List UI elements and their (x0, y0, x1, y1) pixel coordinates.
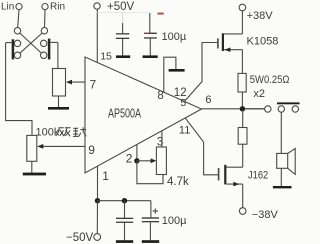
svg-text:+50V: +50V (107, 1, 135, 13)
speaker BL1 (277, 149, 296, 175)
node pin2 junction (134, 158, 139, 163)
svg-text:K1058: K1058 (247, 36, 279, 48)
capacitor C2 100u upper lead (149, 13, 151, 33)
svg-text:1: 1 (102, 169, 109, 183)
pin 8 wire to ground (164, 57, 176, 92)
transistor Q1 K1058 (218, 33, 243, 52)
ground under C3 (116, 240, 133, 243)
wire R1 to output node (241, 92, 243, 109)
wire RP1a to ground (58, 96, 60, 107)
svg-text:−50V: −50V (66, 232, 94, 244)
capacitor C3 plates (116, 218, 133, 223)
svg-text:Rin: Rin (50, 2, 65, 13)
pin 12 wire to Q1 gate (185, 43, 218, 102)
wire output to jack (245, 108, 265, 110)
pin 1 wire down (97, 166, 99, 200)
svg-text:4.7k: 4.7k (167, 176, 189, 188)
capacitor C2 plates (top plate part red) (144, 33, 157, 39)
wire switch to pot RP1a (57, 42, 59, 68)
op-amp U1 AP500A triangle (85, 57, 202, 173)
potentiometer RP1b body (27, 135, 37, 161)
wire C4 to ground (149, 222, 151, 240)
wire +50V to pin 15 (96, 9, 98, 62)
capacitor C4 100u upper lead (150, 201, 152, 218)
svg-text:15: 15 (100, 50, 112, 62)
ground under RP1b (23, 173, 46, 176)
trimmer RP2 wiper arrow (137, 158, 156, 163)
bottom rail wire (98, 200, 151, 202)
connector circle pair (278, 106, 298, 112)
ground under C4 (142, 240, 159, 243)
wire C1 to ground (122, 39, 124, 55)
output node junction (240, 106, 245, 111)
output wire pin 6 (202, 108, 265, 110)
pin 3 wire (161, 131, 163, 147)
ground under C2 (143, 55, 158, 58)
svg-text:AP500A: AP500A (108, 107, 142, 121)
svg-text:J162: J162 (248, 170, 269, 182)
capacitor C3 upper lead (124, 201, 126, 218)
resistor R1 body (238, 73, 246, 92)
switch S1 contact circles (14, 28, 47, 59)
switch S1 right contact bar (48, 39, 51, 60)
wire pin1 to -50V (96, 201, 98, 234)
switch S1 left contact bar (12, 39, 15, 59)
capacitor C1 plates (116, 33, 129, 39)
wire connector to speaker (280, 112, 282, 153)
terminal +38V (239, 4, 273, 22)
terminal +50V (94, 1, 135, 13)
trimmer RP2 body 4.7k (156, 147, 166, 175)
wire Q2 source to R2 (242, 144, 244, 167)
CJK glyphs shuang-lian (dual ganged) (56, 127, 86, 136)
svg-text:x2: x2 (253, 88, 265, 100)
wire C2 to ground (149, 39, 151, 56)
terminal -38V (239, 208, 278, 222)
capacitor C1 upper lead (122, 13, 124, 24)
terminal -50V (66, 232, 101, 244)
node C3 junction (122, 198, 127, 203)
ground at pin 8 (169, 69, 185, 72)
svg-text:11: 11 (179, 125, 190, 137)
wire speaker to ground (280, 168, 282, 186)
svg-text:3: 3 (157, 134, 164, 148)
switch S1 cross wire b (20, 33, 42, 53)
svg-text:7: 7 (90, 77, 97, 91)
wire from left bar (6, 42, 12, 44)
wire Q1 source to R1 (241, 50, 243, 74)
wire from right bar (50, 41, 58, 43)
transistor Q2 J162 (219, 165, 243, 187)
input terminal Lin (1, 2, 22, 13)
red polarity tick (158, 13, 164, 15)
wire Rin to switch (44, 10, 47, 28)
node pin1 junction (95, 198, 100, 203)
pin 2 stub wire (136, 145, 138, 161)
svg-text:8: 8 (157, 90, 163, 102)
faint +50V rail to caps (97, 12, 150, 14)
potentiometer RP1a wiper arrow to pin 7 (66, 80, 85, 85)
wire Lin to switch (18, 10, 19, 28)
svg-text:100µ: 100µ (162, 31, 187, 43)
output jack circle (265, 106, 271, 112)
wire RP2 bottom link to wiper (137, 161, 163, 184)
svg-text:−38V: −38V (252, 209, 279, 221)
svg-text:+38V: +38V (247, 10, 274, 22)
wire left rail down to pot RP1b (6, 43, 32, 136)
svg-text:6: 6 (205, 94, 211, 106)
svg-text:5W0.25Ω: 5W0.25Ω (250, 75, 290, 87)
capacitor C4 plates (142, 217, 159, 222)
svg-text:2: 2 (126, 151, 133, 165)
input terminal Rin (42, 2, 65, 13)
svg-text:100µ: 100µ (162, 215, 187, 227)
connector bar (277, 102, 300, 104)
svg-text:100k: 100k (36, 127, 60, 139)
potentiometer RP1b wiper arrow to pin 9 (37, 144, 85, 149)
wire R2 to output node (242, 110, 244, 128)
resistor R2 body (238, 128, 247, 145)
svg-text:5: 5 (180, 97, 186, 109)
plus mark C4 (153, 208, 158, 213)
switch S1 cross wire a (20, 33, 42, 53)
pin 11 wire to Q2 gate (185, 118, 218, 175)
svg-text:9: 9 (88, 143, 95, 157)
wire C3 to ground (124, 223, 126, 240)
svg-text:Lin: Lin (1, 2, 14, 13)
potentiometer RP1a body (53, 69, 66, 97)
wire +38V to Q1 drain (241, 11, 243, 34)
ground under C1 (116, 55, 130, 58)
wire Q2 drain to -38V (242, 184, 244, 208)
wire RP1b to ground (31, 161, 33, 172)
ground under RP1a (48, 107, 69, 110)
ground under speaker (273, 186, 292, 188)
